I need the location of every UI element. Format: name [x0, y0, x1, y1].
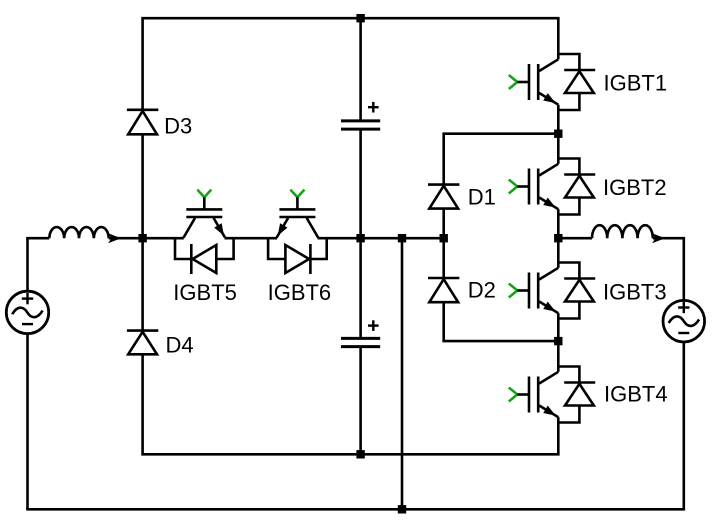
wire right source top lead	[682, 238, 685, 301]
wire left column upper-mid segment	[141, 134, 144, 238]
wire IGBT6 to clamp node	[318, 237, 444, 240]
diode D2	[428, 278, 459, 302]
wire clamp column bottom	[442, 302, 445, 341]
junction capacitor midpoint	[356, 234, 364, 242]
wire inductor L2 to corner	[653, 237, 685, 240]
svg-text:IGBT4: IGBT4	[604, 382, 668, 407]
junction neutral / bottom rail	[398, 505, 406, 513]
svg-text:D1: D1	[468, 184, 496, 209]
wire left column bottom segment	[141, 354, 144, 454]
junction top rail / capacitor branch	[356, 14, 364, 22]
wire IGBT5 to IGBT6	[225, 237, 278, 240]
label IGBT2	[603, 175, 667, 200]
wire clamp top	[442, 132, 558, 135]
svg-text:D3: D3	[164, 114, 192, 139]
igbt IGBT3 (with antiparallel diode)	[509, 263, 595, 319]
diode D1	[428, 185, 459, 209]
wire right rail bottom	[557, 417, 560, 454]
junction neutral	[398, 234, 406, 242]
diode D4	[127, 331, 158, 355]
wire clamp bottom	[442, 340, 558, 343]
ac source V1	[6, 291, 48, 333]
igbt IGBT6 (with antiparallel diode)	[268, 190, 327, 274]
wire right rail IGBT3-IGBT4	[557, 313, 560, 372]
arrow on output wire	[652, 233, 665, 243]
wire top DC rail	[141, 17, 559, 20]
wire right source bottom lead	[682, 342, 685, 510]
label IGBT6	[268, 280, 332, 305]
igbt IGBT4 (with antiparallel diode)	[509, 367, 595, 423]
wire capacitor column bottom	[359, 347, 362, 455]
label IGBT3	[603, 280, 667, 305]
wire inner bottom rail	[141, 453, 559, 456]
wire left column top segment	[141, 18, 144, 110]
arrow on input wire	[108, 233, 121, 243]
wire right rail IGBT1-IGBT2	[557, 105, 560, 164]
junction capacitor bottom / inner rail	[356, 450, 364, 458]
wire right rail IGBT2-IGBT3	[557, 209, 560, 268]
igbt IGBT2 (with antiparallel diode)	[509, 159, 595, 215]
wire inductor to node A	[109, 237, 184, 240]
svg-text:IGBT2: IGBT2	[603, 175, 667, 200]
label D3	[164, 114, 192, 139]
svg-text:D4: D4	[166, 333, 194, 358]
node A junction (left column / main line)	[138, 234, 146, 242]
label D4	[166, 333, 194, 358]
wire input from source to inductor	[26, 237, 49, 240]
label IGBT1	[604, 71, 668, 96]
wire left source bottom lead	[26, 334, 29, 510]
wire bottom rail	[26, 508, 685, 511]
inductor L2 (output filter)	[592, 225, 653, 238]
wire clamp column top	[442, 134, 445, 185]
wire right rail top	[557, 18, 560, 59]
inductor L1 (input filter)	[49, 227, 108, 238]
capacitor C2	[341, 320, 380, 346]
label D2	[468, 278, 496, 303]
label IGBT4	[604, 382, 668, 407]
junction clamp bottom / right rail	[554, 337, 562, 345]
wire clamp column middle	[442, 209, 445, 278]
ac source V2	[663, 300, 705, 342]
capacitor C1	[341, 102, 380, 129]
junction clamp midpoint	[440, 234, 448, 242]
svg-text:IGBT3: IGBT3	[603, 280, 667, 305]
label D1	[468, 184, 496, 209]
wire output node to inductor	[558, 237, 592, 240]
wire neutral drop	[401, 238, 404, 509]
svg-text:IGBT1: IGBT1	[604, 71, 668, 96]
igbt IGBT1 (with antiparallel diode)	[509, 54, 595, 110]
igbt IGBT5 (with antiparallel diode)	[175, 190, 234, 274]
svg-text:D2: D2	[468, 278, 496, 303]
junction output node	[554, 234, 562, 242]
wire left column lower-mid segment	[141, 238, 144, 330]
wire left source top lead	[26, 238, 29, 291]
diode D3	[127, 110, 158, 135]
svg-text:IGBT5: IGBT5	[173, 280, 237, 305]
wire capacitor column middle	[359, 129, 362, 338]
svg-text:IGBT6: IGBT6	[268, 280, 332, 305]
wire capacitor column top	[359, 18, 362, 121]
junction clamp top / right rail	[554, 130, 562, 138]
label IGBT5	[173, 280, 237, 305]
